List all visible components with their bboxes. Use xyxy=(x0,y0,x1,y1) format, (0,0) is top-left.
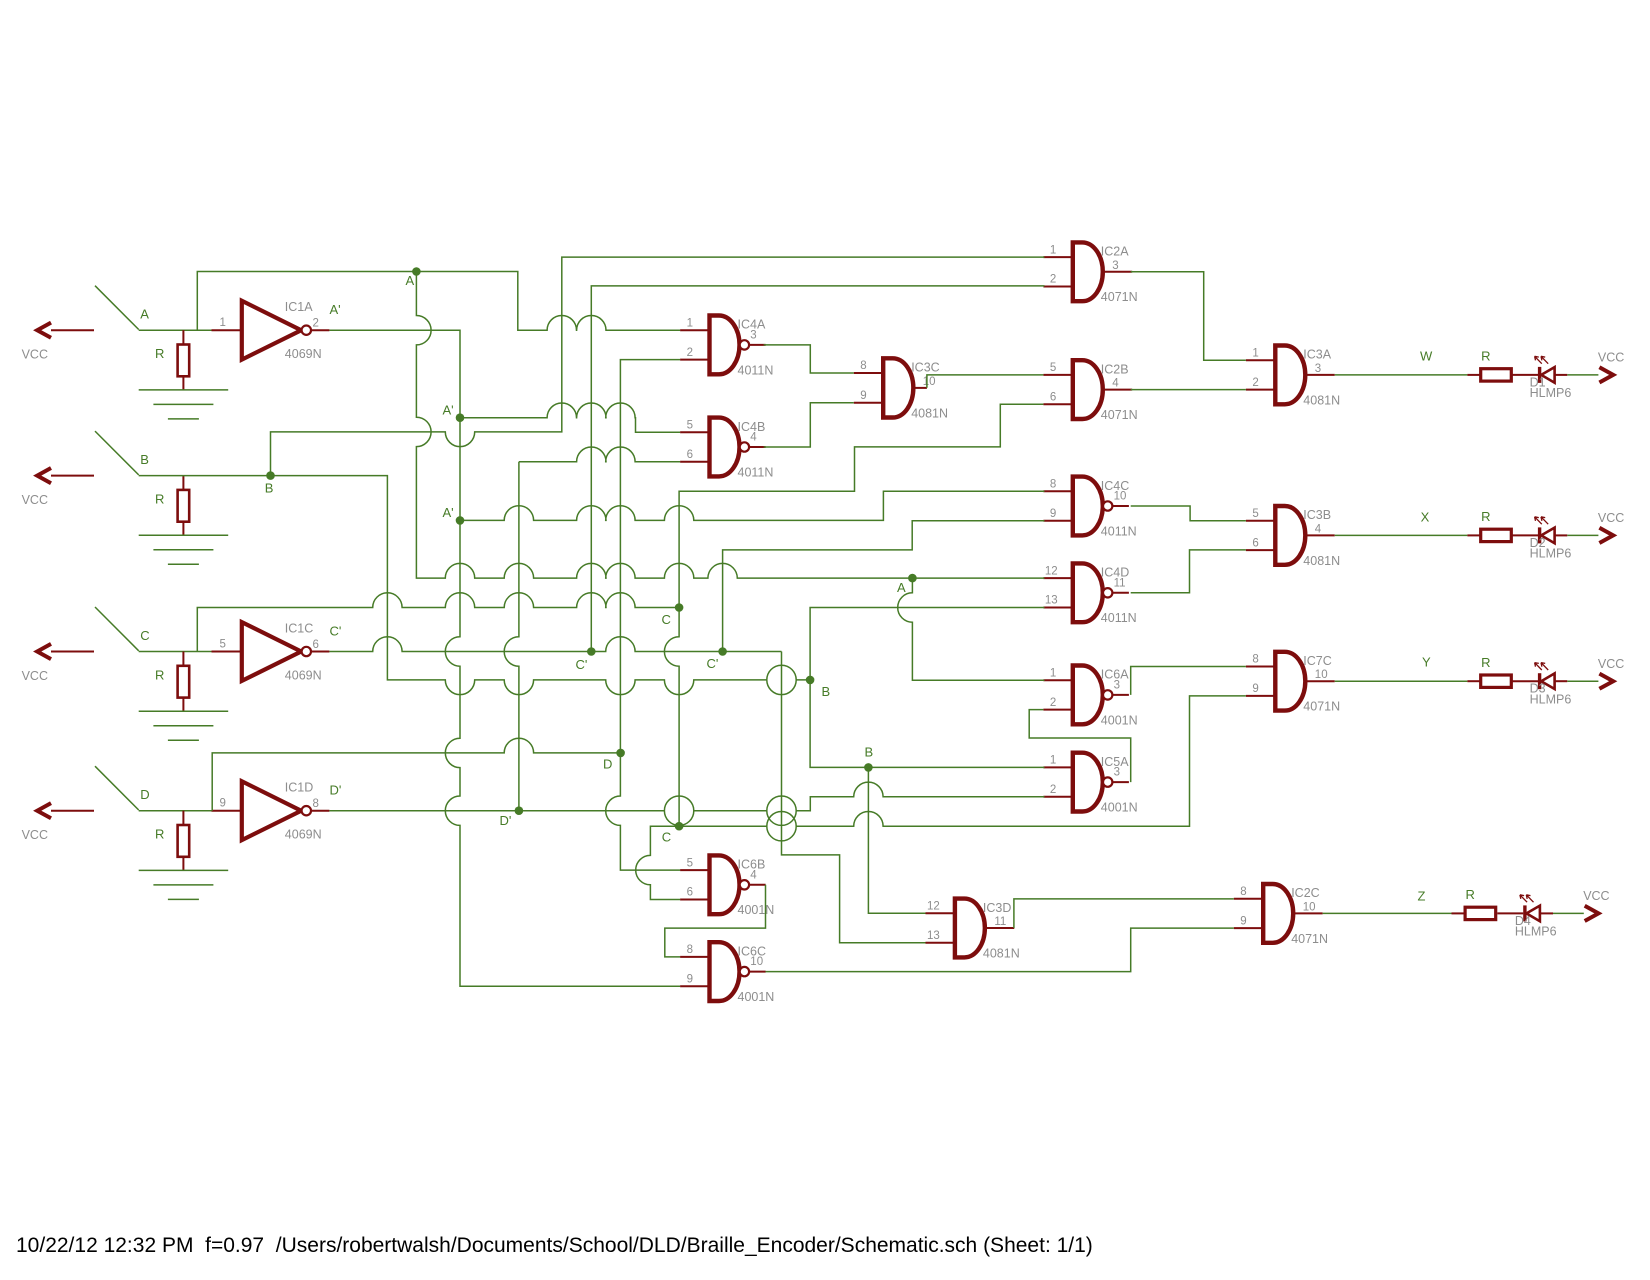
svg-text:C: C xyxy=(662,830,671,845)
svg-text:10: 10 xyxy=(923,376,936,388)
node B switch junction xyxy=(266,471,275,480)
inverter IC1D 4069N xyxy=(212,781,342,842)
svg-text:A: A xyxy=(406,273,415,288)
wire LED D3 out xyxy=(1555,680,1568,682)
svg-text:8: 8 xyxy=(1240,886,1246,898)
svg-text:2: 2 xyxy=(1050,784,1056,796)
power symbol VCC (output Y) xyxy=(1598,657,1624,689)
node C-prime junction x722 xyxy=(718,647,727,656)
node B junction at x868 xyxy=(864,763,873,772)
wire IC4D.11 to IC3B pin 6 xyxy=(1131,550,1246,593)
svg-text:VCC: VCC xyxy=(1598,657,1624,671)
svg-text:Y: Y xyxy=(1422,655,1431,670)
wire net A-prime to IC4B pin 5 xyxy=(460,403,680,432)
wire resistor to LED D1 xyxy=(1511,374,1538,376)
svg-text:Z: Z xyxy=(1418,888,1426,903)
svg-text:5: 5 xyxy=(1252,508,1258,520)
NOR gate IC5A 4001N xyxy=(1043,753,1137,815)
svg-text:4: 4 xyxy=(1315,523,1322,535)
switch S2 (input B) xyxy=(95,431,149,475)
power symbol VCC (input A) xyxy=(22,323,94,362)
svg-text:4069N: 4069N xyxy=(285,828,322,842)
svg-text:C': C' xyxy=(576,657,588,672)
wire net B main drop and lower row xyxy=(271,476,811,695)
wire IC3C.10 to IC2B pin 5 xyxy=(927,375,1044,388)
inverter IC1A 4069N xyxy=(212,300,341,361)
node A row junction xyxy=(908,574,917,583)
wire net B down to IC5A pin 1 xyxy=(810,680,1044,768)
wire net A-prime long vertical to IC6C pin 9 xyxy=(445,520,680,986)
wire IC4A.3 to IC3C pin 8 xyxy=(764,345,854,373)
svg-text:4069N: 4069N xyxy=(285,668,322,682)
svg-text:1: 1 xyxy=(1050,244,1056,256)
wire net C down vertical xyxy=(664,608,679,827)
svg-text:1: 1 xyxy=(220,317,226,329)
svg-text:IC2A: IC2A xyxy=(1101,245,1129,259)
wire net Y to VCC arrow xyxy=(1567,680,1598,682)
svg-text:A': A' xyxy=(443,505,454,520)
power symbol VCC (input C) xyxy=(22,644,94,683)
wire net W to VCC arrow xyxy=(1567,374,1598,376)
svg-text:IC6C: IC6C xyxy=(738,944,766,958)
power symbol VCC (input D) xyxy=(22,803,94,842)
LED D2 HLMP6 xyxy=(1530,517,1572,561)
wire net A feedback riser xyxy=(197,272,416,331)
wire LED D4 out xyxy=(1540,912,1553,914)
svg-text:IC4A: IC4A xyxy=(738,318,766,332)
wire IC3D.11 to IC2C pin 8 xyxy=(1014,899,1234,928)
wire net A down to IC6A pin 1 xyxy=(898,578,1045,680)
svg-text:4081N: 4081N xyxy=(1303,554,1340,568)
switch S4 (input D) xyxy=(95,766,150,810)
OR gate IC2B 4071N xyxy=(1043,360,1137,422)
svg-text:X: X xyxy=(1421,510,1430,525)
svg-text:4011N: 4011N xyxy=(1101,524,1137,538)
switch S3 (input C) xyxy=(95,607,150,651)
hop circle net C x net D-prime row xyxy=(664,796,693,825)
wire net D-prime vertical xyxy=(504,462,519,811)
svg-text:5: 5 xyxy=(687,857,693,869)
svg-text:IC1D: IC1D xyxy=(285,781,313,795)
wire IC6A.3 to IC7C pin 8 xyxy=(1131,667,1246,695)
footer plot info text xyxy=(16,1234,1093,1258)
resistor R (pull-down, input A) xyxy=(155,330,189,390)
ground (input A) xyxy=(139,390,229,419)
svg-text:IC4D: IC4D xyxy=(1101,566,1129,580)
wire net B upper branch to IC2A pin 1 xyxy=(271,257,1045,476)
svg-text:C': C' xyxy=(707,656,719,671)
wire net Z to VCC arrow xyxy=(1553,912,1584,914)
resistor R (pull-down, input B) xyxy=(155,476,189,536)
svg-text:IC3B: IC3B xyxy=(1303,508,1331,522)
wire LED D2 out xyxy=(1555,534,1568,536)
power symbol VCC (output Z) xyxy=(1583,889,1609,921)
svg-text:A: A xyxy=(140,307,149,322)
svg-text:10: 10 xyxy=(1303,901,1316,913)
NAND gate IC4B 4011N xyxy=(680,418,773,480)
svg-text:IC3A: IC3A xyxy=(1303,348,1331,362)
wire net C-prime up to IC2A pin 2 xyxy=(591,286,1044,652)
svg-text:12: 12 xyxy=(1045,565,1058,577)
hop circle net C-prime x net C row xyxy=(767,812,796,841)
svg-text:VCC: VCC xyxy=(1598,511,1624,525)
svg-text:9: 9 xyxy=(687,974,693,986)
node D-prime junction x519 xyxy=(515,806,524,815)
svg-text:1: 1 xyxy=(687,317,693,329)
svg-text:12: 12 xyxy=(927,901,940,913)
wire net D-prime from IC1D output to IC5A pin 2 xyxy=(329,782,1044,811)
svg-text:IC3C: IC3C xyxy=(911,361,939,375)
svg-text:HLMP6: HLMP6 xyxy=(1515,925,1557,939)
node C lower junction xyxy=(675,822,684,831)
resistor R (output W) xyxy=(1481,349,1512,382)
svg-text:6: 6 xyxy=(1050,392,1056,404)
wire net A to IC4D pin 12 stub xyxy=(912,577,1044,579)
svg-text:R: R xyxy=(155,346,164,361)
node C junction x679 xyxy=(675,603,684,612)
svg-text:4081N: 4081N xyxy=(911,407,948,421)
svg-text:2: 2 xyxy=(687,347,693,359)
wire resistor to LED D3 xyxy=(1511,680,1538,682)
svg-text:9: 9 xyxy=(1050,508,1056,520)
svg-text:4069N: 4069N xyxy=(285,347,322,361)
wire IC2A.3 to IC3A pin 1 xyxy=(1131,272,1246,360)
wire net A vertical and row to IC4D pin 12 xyxy=(416,272,912,579)
svg-text:IC7C: IC7C xyxy=(1303,654,1331,668)
wire LED D1 out xyxy=(1555,374,1568,376)
svg-text:4001N: 4001N xyxy=(738,903,775,917)
svg-text:R: R xyxy=(1481,509,1490,524)
svg-text:C: C xyxy=(140,628,149,643)
svg-text:5: 5 xyxy=(1050,362,1056,374)
svg-text:D: D xyxy=(140,787,149,802)
svg-text:4081N: 4081N xyxy=(983,946,1020,960)
AND gate IC3A 4081N xyxy=(1246,346,1340,408)
wire lead into resistor (W) xyxy=(1467,374,1480,376)
node B junction at x810 xyxy=(806,676,815,685)
svg-text:1: 1 xyxy=(1050,667,1056,679)
svg-text:HLMP6: HLMP6 xyxy=(1530,386,1572,400)
svg-text:A': A' xyxy=(443,403,454,418)
svg-text:8: 8 xyxy=(687,944,693,956)
svg-text:4001N: 4001N xyxy=(738,990,775,1004)
svg-text:VCC: VCC xyxy=(22,669,48,683)
ground (input D) xyxy=(139,870,229,899)
wire net C up to IC2B pin 6 xyxy=(679,404,1043,607)
wire IC2B.4 to IC3A pin 2 xyxy=(1131,389,1246,391)
svg-text:VCC: VCC xyxy=(22,348,48,362)
wire input A row xyxy=(139,329,212,331)
svg-text:IC2C: IC2C xyxy=(1291,886,1319,900)
wire net X to VCC arrow xyxy=(1567,534,1598,536)
resistor R (pull-down, input C) xyxy=(155,652,189,712)
wire IC4B.4 to IC3C pin 9 xyxy=(764,403,854,447)
NOR gate IC6A 4001N xyxy=(1043,666,1137,728)
svg-text:R: R xyxy=(155,492,164,507)
wire net A-prime vertical xyxy=(459,418,461,521)
wire IC4C.10 to IC3B pin 5 xyxy=(1131,506,1246,521)
wire IC5A.3 to IC6A pin 2 xyxy=(1029,710,1131,783)
resistor R (output Z) xyxy=(1465,887,1496,920)
ground (input B) xyxy=(139,535,229,564)
svg-text:A: A xyxy=(897,580,906,595)
wire net B up to IC4D pin 13 xyxy=(810,608,1044,680)
wire net D from IC4A pin 2 down to IC6B pin 5 xyxy=(606,360,680,870)
NOR gate IC6C 4001N xyxy=(680,942,774,1004)
wire lead into resistor (Z) xyxy=(1452,912,1466,914)
wire net B down to IC3D pin 12 xyxy=(868,767,925,913)
svg-text:C': C' xyxy=(330,624,342,639)
wire net A to IC4A pin 1 xyxy=(416,272,680,331)
svg-text:9: 9 xyxy=(1252,683,1258,695)
wire lead into resistor (X) xyxy=(1467,534,1480,536)
NAND gate IC4D 4011N xyxy=(1043,563,1136,625)
svg-text:2: 2 xyxy=(1252,377,1258,389)
svg-text:IC6A: IC6A xyxy=(1101,668,1129,682)
svg-text:D': D' xyxy=(500,813,512,828)
svg-text:B: B xyxy=(822,684,831,699)
resistor R (output X) xyxy=(1481,509,1512,542)
wire net W from IC3A.3 xyxy=(1335,374,1468,376)
svg-text:11: 11 xyxy=(994,916,1006,928)
svg-text:8: 8 xyxy=(1252,654,1258,666)
node A top junction xyxy=(412,267,421,276)
wire net C-prime from IC1C output xyxy=(329,637,781,652)
svg-text:HLMP6: HLMP6 xyxy=(1530,693,1572,707)
LED D4 HLMP6 xyxy=(1515,895,1557,939)
svg-text:4011N: 4011N xyxy=(738,465,774,479)
svg-text:IC2B: IC2B xyxy=(1101,362,1129,376)
svg-text:B: B xyxy=(865,745,874,760)
svg-text:IC6B: IC6B xyxy=(738,858,766,872)
power symbol VCC (output W) xyxy=(1598,351,1624,383)
svg-text:1: 1 xyxy=(1050,755,1056,767)
svg-text:R: R xyxy=(155,827,164,842)
wire resistor to LED D2 xyxy=(1511,534,1538,536)
resistor R (pull-down, input D) xyxy=(155,811,189,871)
wire resistor to LED D4 xyxy=(1497,912,1523,914)
wire IC6C.10 to IC2C pin 9 xyxy=(766,928,1234,972)
svg-text:D': D' xyxy=(330,783,342,798)
svg-text:D: D xyxy=(603,757,612,772)
svg-text:4071N: 4071N xyxy=(1101,408,1138,422)
svg-text:6: 6 xyxy=(1252,537,1258,549)
svg-text:2: 2 xyxy=(1050,697,1056,709)
AND gate IC3C 4081N xyxy=(854,358,948,420)
svg-text:W: W xyxy=(1420,349,1433,364)
svg-text:VCC: VCC xyxy=(1598,351,1624,365)
svg-text:6: 6 xyxy=(687,449,693,461)
wire net C long row to IC7C pin 9 xyxy=(679,696,1246,826)
svg-text:4071N: 4071N xyxy=(1291,932,1328,946)
NAND gate IC4C 4011N xyxy=(1043,477,1136,539)
svg-text:IC4C: IC4C xyxy=(1101,479,1129,493)
svg-text:A': A' xyxy=(330,302,341,317)
svg-text:2: 2 xyxy=(313,318,319,330)
svg-text:9: 9 xyxy=(1240,915,1246,927)
svg-text:4001N: 4001N xyxy=(1101,713,1138,727)
power symbol VCC (input B) xyxy=(22,468,94,507)
svg-text:4011N: 4011N xyxy=(1101,611,1137,625)
svg-text:3: 3 xyxy=(1315,363,1321,375)
node C-prime junction x591 xyxy=(587,647,596,656)
LED D1 HLMP6 xyxy=(1530,356,1572,400)
svg-text:IC5A: IC5A xyxy=(1101,755,1129,769)
svg-text:B: B xyxy=(265,480,274,495)
svg-text:IC3D: IC3D xyxy=(983,901,1011,915)
svg-text:2: 2 xyxy=(1050,274,1056,286)
svg-text:R: R xyxy=(1481,349,1490,364)
svg-text:HLMP6: HLMP6 xyxy=(1530,547,1572,561)
svg-text:R: R xyxy=(1466,887,1475,902)
wire net D-prime row from IC4B pin 6 xyxy=(519,447,680,462)
node D junction x620 xyxy=(616,749,625,758)
svg-text:4011N: 4011N xyxy=(738,363,774,377)
switch S1 (input A) xyxy=(95,286,149,330)
OR gate IC7C 4071N xyxy=(1246,652,1340,714)
svg-text:VCC: VCC xyxy=(22,493,48,507)
svg-text:C: C xyxy=(662,612,671,627)
NOR gate IC6B 4001N xyxy=(680,855,774,917)
wire input C row xyxy=(139,651,212,653)
svg-text:8: 8 xyxy=(1050,479,1056,491)
wire net A-prime to IC4C pin 8 xyxy=(460,491,1045,520)
wire IC6B.4 to IC6C pin 8 xyxy=(665,885,766,957)
svg-text:4001N: 4001N xyxy=(1101,801,1138,815)
wire net C-prime up to IC4C pin 9 xyxy=(723,521,1045,652)
svg-text:B: B xyxy=(140,452,149,467)
svg-text:IC4B: IC4B xyxy=(738,420,766,434)
svg-text:9: 9 xyxy=(860,390,866,402)
svg-text:R: R xyxy=(1481,655,1490,670)
svg-text:6: 6 xyxy=(687,887,693,899)
svg-text:13: 13 xyxy=(1045,595,1058,607)
inverter IC1C 4069N xyxy=(212,622,342,683)
svg-text:4: 4 xyxy=(1112,378,1119,390)
wire net B switch to junction xyxy=(139,475,271,477)
svg-text:13: 13 xyxy=(927,930,940,942)
svg-text:VCC: VCC xyxy=(1583,889,1609,903)
hop circle net C-prime x net D-prime row xyxy=(767,796,796,825)
wire net C feedback riser and row xyxy=(197,593,679,652)
power symbol VCC (output X) xyxy=(1598,511,1624,543)
svg-text:VCC: VCC xyxy=(22,828,48,842)
wire net Y from IC7C.10 xyxy=(1335,680,1468,682)
wire lead into resistor (Y) xyxy=(1467,680,1480,682)
wire net X from IC3B.4 xyxy=(1335,534,1468,536)
svg-text:5: 5 xyxy=(687,420,693,432)
LED D3 HLMP6 xyxy=(1530,663,1572,707)
svg-text:IC1C: IC1C xyxy=(285,622,313,636)
svg-text:1: 1 xyxy=(1252,347,1258,359)
wire net C branch to IC6B pin 6 xyxy=(636,826,680,899)
svg-text:10: 10 xyxy=(1315,669,1328,681)
AND gate IC3B 4081N xyxy=(1246,506,1340,568)
svg-text:4071N: 4071N xyxy=(1101,290,1138,304)
svg-text:9: 9 xyxy=(220,798,226,810)
wire net A-prime from IC1A output xyxy=(329,330,460,418)
wire net C-prime down to IC3D pin 13 xyxy=(782,652,926,943)
ground (input C) xyxy=(139,711,229,740)
resistor R (output Y) xyxy=(1481,655,1512,688)
svg-text:IC1A: IC1A xyxy=(285,300,313,314)
hop circle net C-prime x net B row xyxy=(767,665,796,694)
NAND gate IC4A 4011N xyxy=(680,316,773,378)
svg-text:3: 3 xyxy=(1112,260,1118,272)
wire net D feedback riser and row xyxy=(212,738,620,811)
svg-text:4081N: 4081N xyxy=(1303,393,1340,407)
svg-text:8: 8 xyxy=(860,360,866,372)
svg-text:4071N: 4071N xyxy=(1303,700,1340,714)
svg-text:8: 8 xyxy=(313,798,319,810)
node A-prime upper junction xyxy=(456,413,465,422)
wire input D row xyxy=(139,810,212,812)
wire net Z from IC2C.10 xyxy=(1323,912,1452,914)
svg-text:6: 6 xyxy=(313,639,319,651)
svg-text:5: 5 xyxy=(220,638,226,650)
AND gate IC3D 4081N xyxy=(926,899,1020,961)
OR gate IC2C 4071N xyxy=(1234,884,1328,946)
svg-text:R: R xyxy=(155,668,164,683)
node A-prime second junction xyxy=(456,516,465,525)
OR gate IC2A 4071N xyxy=(1043,242,1137,304)
